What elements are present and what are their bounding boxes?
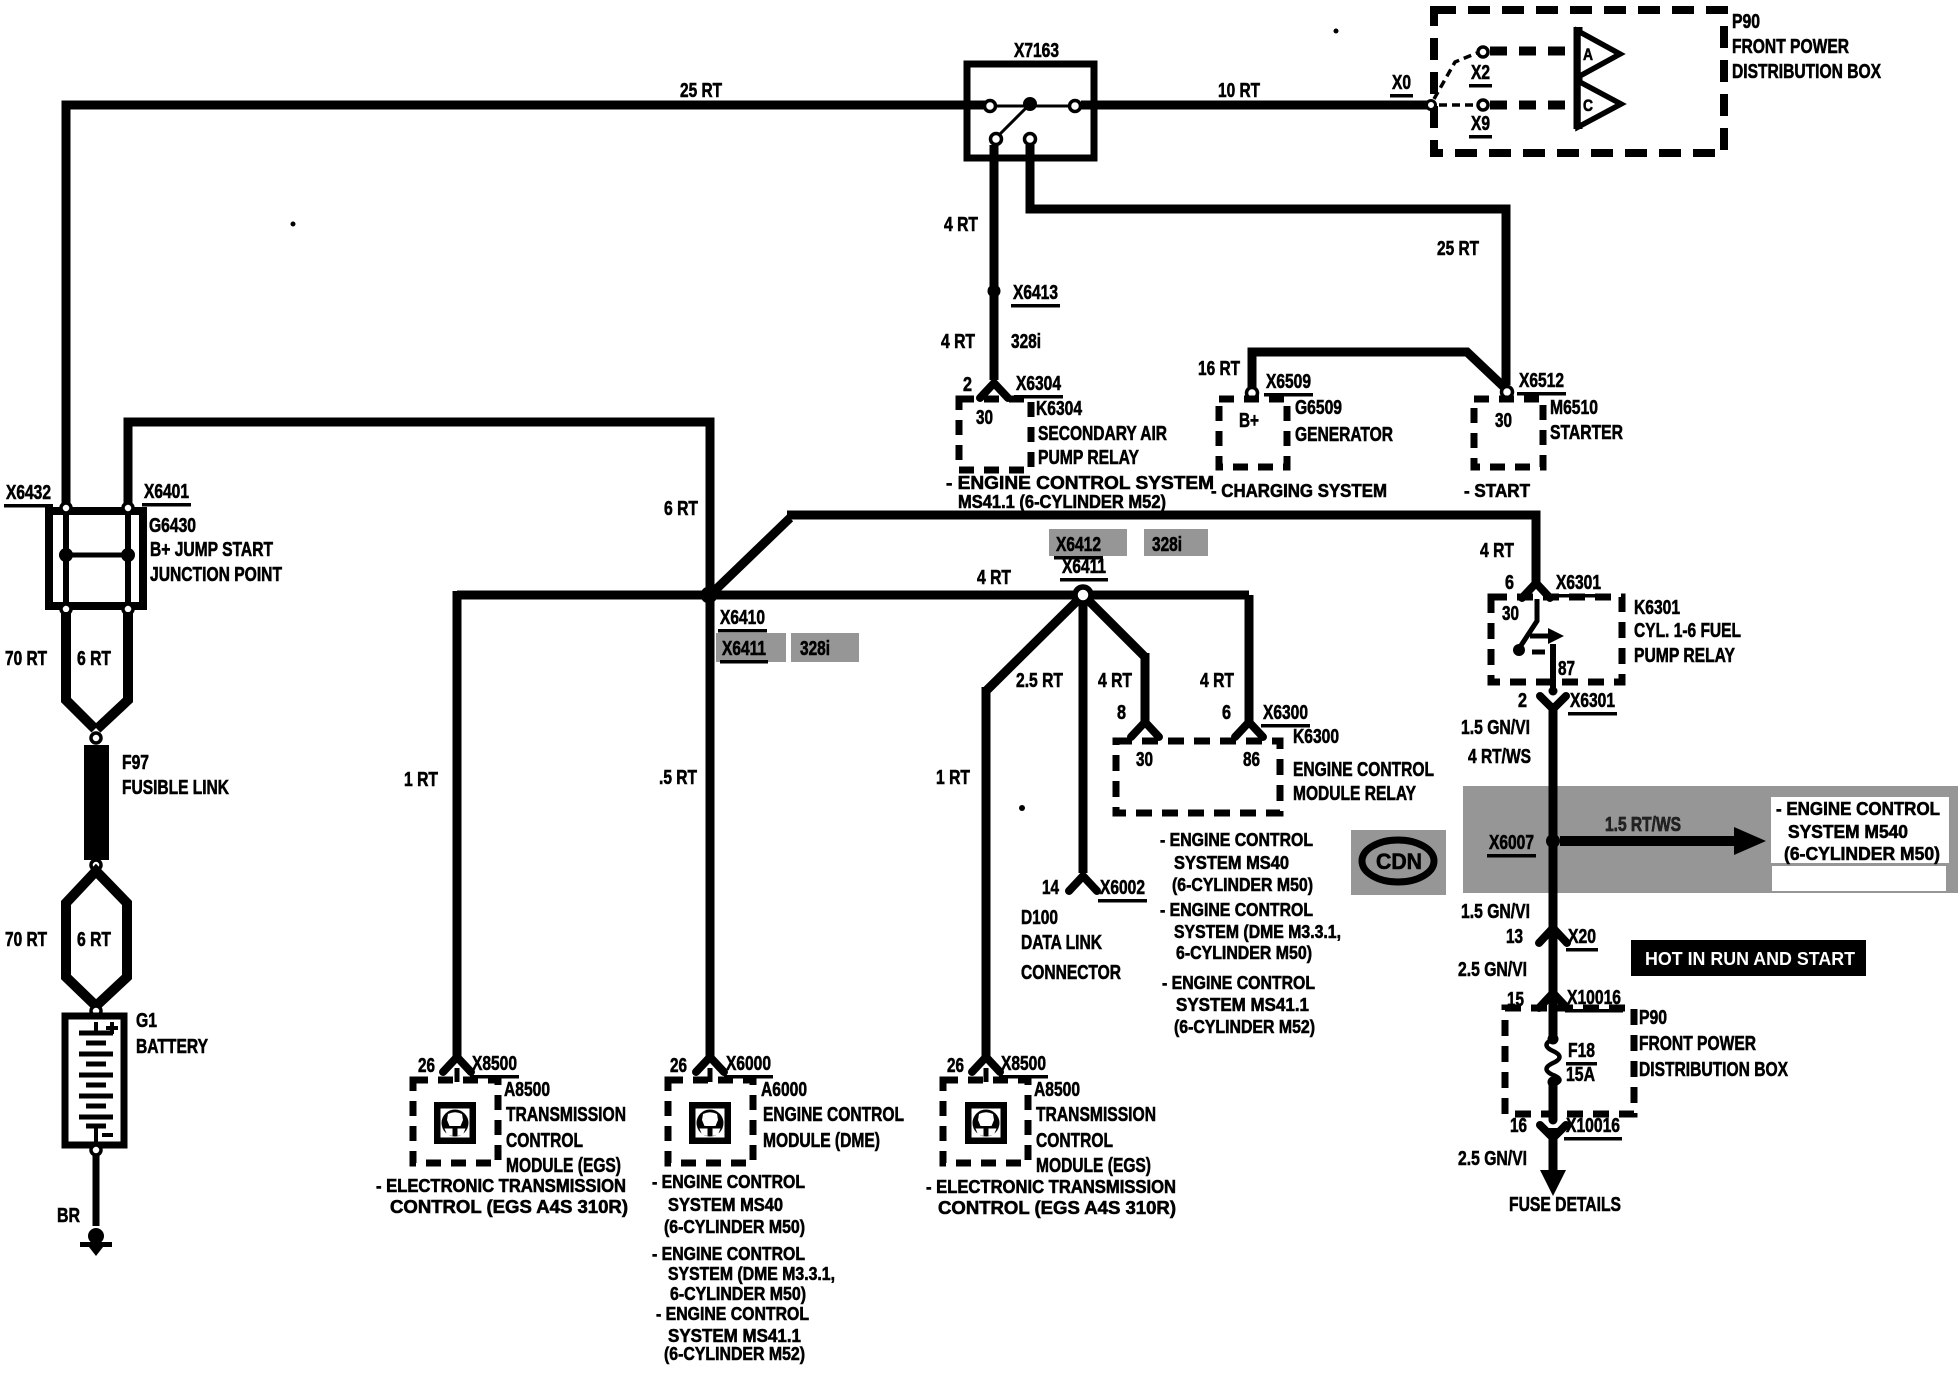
svg-text:(6-CYLINDER M52): (6-CYLINDER M52) (1174, 1017, 1315, 1037)
svg-text:1 RT: 1 RT (404, 769, 438, 791)
svg-text:- ENGINE CONTROL: - ENGINE CONTROL (1776, 799, 1940, 819)
svg-text:- ENGINE CONTROL: - ENGINE CONTROL (652, 1172, 805, 1192)
svg-text:FUSIBLE LINK: FUSIBLE LINK (122, 777, 229, 799)
svg-text:- ENGINE CONTROL: - ENGINE CONTROL (1160, 900, 1313, 920)
svg-text:(6-CYLINDER M50): (6-CYLINDER M50) (1172, 875, 1313, 895)
svg-text:ENGINE CONTROL: ENGINE CONTROL (763, 1104, 904, 1126)
svg-text:16: 16 (1510, 1115, 1527, 1137)
svg-text:X6412: X6412 (1056, 534, 1101, 556)
svg-text:X8500: X8500 (1001, 1053, 1046, 1075)
svg-text:DISTRIBUTION BOX: DISTRIBUTION BOX (1732, 61, 1882, 83)
svg-text:G1: G1 (136, 1010, 157, 1032)
svg-text:SECONDARY AIR: SECONDARY AIR (1038, 423, 1167, 445)
svg-text:2: 2 (1518, 690, 1527, 712)
svg-text:- ENGINE CONTROL: - ENGINE CONTROL (652, 1244, 805, 1264)
svg-text:HOT IN RUN AND START: HOT IN RUN AND START (1645, 949, 1855, 969)
svg-text:X6432: X6432 (6, 482, 51, 504)
svg-text:CONTROL (EGS A4S 310R): CONTROL (EGS A4S 310R) (938, 1198, 1176, 1218)
svg-text:F18: F18 (1568, 1040, 1595, 1062)
svg-text:X0: X0 (1392, 72, 1411, 94)
svg-text:.5 RT: .5 RT (659, 767, 697, 789)
svg-text:A: A (1583, 45, 1593, 64)
svg-text:DISTRIBUTION BOX: DISTRIBUTION BOX (1639, 1059, 1789, 1081)
svg-text:F97: F97 (122, 752, 149, 774)
svg-text:STARTER: STARTER (1550, 422, 1623, 444)
svg-text:TRANSMISSION: TRANSMISSION (1036, 1104, 1156, 1126)
svg-text:SYSTEM M540: SYSTEM M540 (1788, 822, 1908, 842)
svg-text:- ENGINE CONTROL: - ENGINE CONTROL (1160, 830, 1313, 850)
svg-text:BATTERY: BATTERY (136, 1036, 209, 1058)
svg-text:X6410: X6410 (720, 607, 765, 629)
svg-text:X6304: X6304 (1016, 373, 1062, 395)
svg-text:- ENGINE CONTROL: - ENGINE CONTROL (1162, 973, 1315, 993)
svg-text:26: 26 (670, 1055, 687, 1077)
svg-text:M6510: M6510 (1550, 397, 1598, 419)
svg-text:X6002: X6002 (1100, 877, 1145, 899)
svg-text:SYSTEM MS40: SYSTEM MS40 (668, 1195, 783, 1215)
svg-text:25 RT: 25 RT (680, 80, 722, 102)
svg-text:4 RT: 4 RT (1200, 670, 1234, 692)
svg-text:4 RT: 4 RT (1480, 540, 1514, 562)
svg-text:SYSTEM (DME M3.3.1,: SYSTEM (DME M3.3.1, (1174, 922, 1341, 942)
svg-text:1.5 RT/WS: 1.5 RT/WS (1605, 814, 1681, 836)
svg-text:GENERATOR: GENERATOR (1295, 424, 1393, 446)
svg-text:X6411: X6411 (722, 638, 766, 660)
svg-text:TRANSMISSION: TRANSMISSION (506, 1104, 626, 1126)
svg-text:2.5 GN/VI: 2.5 GN/VI (1458, 1148, 1527, 1170)
svg-text:BR: BR (57, 1205, 80, 1227)
svg-text:MODULE RELAY: MODULE RELAY (1293, 783, 1417, 805)
svg-text:CONTROL (EGS A4S 310R): CONTROL (EGS A4S 310R) (390, 1197, 628, 1217)
svg-text:SYSTEM MS41.1: SYSTEM MS41.1 (1176, 995, 1309, 1015)
svg-text:A6000: A6000 (761, 1079, 807, 1101)
svg-text:2.5 RT: 2.5 RT (1016, 670, 1063, 692)
svg-text:4 RT: 4 RT (941, 331, 975, 353)
svg-text:14: 14 (1042, 877, 1060, 899)
svg-text:16 RT: 16 RT (1198, 358, 1240, 380)
svg-text:X9: X9 (1471, 113, 1490, 135)
svg-text:SYSTEM MS40: SYSTEM MS40 (1174, 853, 1289, 873)
svg-text:X2: X2 (1471, 62, 1490, 84)
svg-text:15A: 15A (1566, 1064, 1595, 1086)
svg-text:X6512: X6512 (1519, 370, 1564, 392)
svg-text:X6411: X6411 (1062, 556, 1106, 578)
svg-text:K6301: K6301 (1634, 597, 1680, 619)
svg-text:X6509: X6509 (1266, 371, 1311, 393)
svg-text:1 RT: 1 RT (936, 767, 970, 789)
svg-text:X6000: X6000 (726, 1053, 771, 1075)
svg-text:6 RT: 6 RT (77, 648, 111, 670)
svg-text:15: 15 (1507, 989, 1524, 1011)
svg-text:PUMP RELAY: PUMP RELAY (1038, 447, 1140, 469)
svg-text:FRONT POWER: FRONT POWER (1639, 1033, 1756, 1055)
svg-text:PUMP RELAY: PUMP RELAY (1634, 645, 1736, 667)
svg-text:70 RT: 70 RT (5, 929, 47, 951)
svg-text:25 RT: 25 RT (1437, 238, 1479, 260)
svg-text:1.5 GN/VI: 1.5 GN/VI (1461, 901, 1530, 923)
svg-text:328i: 328i (1011, 331, 1041, 353)
svg-text:K6300: K6300 (1293, 726, 1339, 748)
svg-text:CONTROL: CONTROL (506, 1130, 583, 1152)
svg-text:G6509: G6509 (1295, 397, 1342, 419)
svg-text:X6007: X6007 (1489, 832, 1534, 854)
svg-text:X10016: X10016 (1567, 987, 1621, 1009)
svg-text:6: 6 (1222, 702, 1231, 724)
svg-text:MODULE (EGS): MODULE (EGS) (506, 1155, 621, 1177)
svg-text:30: 30 (1502, 603, 1519, 625)
svg-text:A8500: A8500 (1034, 1079, 1080, 1101)
svg-text:X20: X20 (1568, 926, 1596, 948)
svg-text:328i: 328i (1152, 534, 1182, 556)
svg-text:1.5 GN/VI: 1.5 GN/VI (1461, 717, 1530, 739)
svg-text:70 RT: 70 RT (5, 648, 47, 670)
svg-text:X6413: X6413 (1013, 282, 1058, 304)
svg-text:8: 8 (1117, 702, 1126, 724)
svg-text:4 RT/WS: 4 RT/WS (1468, 746, 1531, 768)
svg-text:X6300: X6300 (1263, 702, 1308, 724)
svg-text:26: 26 (947, 1055, 964, 1077)
svg-text:CONNECTOR: CONNECTOR (1021, 962, 1121, 984)
svg-text:X10016: X10016 (1566, 1115, 1620, 1137)
svg-text:- ELECTRONIC TRANSMISSION: - ELECTRONIC TRANSMISSION (926, 1177, 1176, 1197)
svg-text:- CHARGING SYSTEM: - CHARGING SYSTEM (1211, 481, 1387, 501)
svg-text:- ENGINE CONTROL SYSTEM: - ENGINE CONTROL SYSTEM (946, 473, 1214, 493)
svg-text:13: 13 (1506, 926, 1523, 948)
svg-text:(6-CYLINDER M50): (6-CYLINDER M50) (1784, 844, 1940, 864)
svg-text:30: 30 (1495, 410, 1512, 432)
svg-text:- START: - START (1464, 481, 1530, 501)
svg-text:C: C (1583, 96, 1593, 115)
svg-text:P90: P90 (1732, 11, 1760, 33)
svg-text:- ENGINE CONTROL: - ENGINE CONTROL (656, 1304, 809, 1324)
svg-text:K6304: K6304 (1036, 398, 1083, 420)
svg-text:2: 2 (963, 374, 972, 396)
svg-text:JUNCTION POINT: JUNCTION POINT (150, 564, 282, 586)
svg-text:CYL. 1-6 FUEL: CYL. 1-6 FUEL (1634, 620, 1741, 642)
svg-text:X6301: X6301 (1556, 572, 1601, 594)
svg-text:4 RT: 4 RT (1098, 670, 1132, 692)
svg-text:FRONT POWER: FRONT POWER (1732, 36, 1849, 58)
svg-text:- ELECTRONIC TRANSMISSION: - ELECTRONIC TRANSMISSION (376, 1176, 626, 1196)
svg-text:(6-CYLINDER M52): (6-CYLINDER M52) (664, 1344, 805, 1364)
svg-text:DATA LINK: DATA LINK (1021, 932, 1102, 954)
svg-text:30: 30 (1136, 749, 1153, 771)
svg-text:4 RT: 4 RT (944, 214, 978, 236)
svg-text:X6301: X6301 (1570, 690, 1615, 712)
svg-text:SYSTEM MS41.1: SYSTEM MS41.1 (668, 1326, 801, 1346)
svg-text:6 RT: 6 RT (664, 498, 698, 520)
svg-text:(6-CYLINDER M50): (6-CYLINDER M50) (664, 1217, 805, 1237)
svg-text:6-CYLINDER M50): 6-CYLINDER M50) (670, 1284, 806, 1304)
svg-text:10 RT: 10 RT (1218, 80, 1260, 102)
svg-text:86: 86 (1243, 749, 1260, 771)
svg-text:6-CYLINDER M50): 6-CYLINDER M50) (1176, 943, 1312, 963)
svg-text:26: 26 (418, 1055, 435, 1077)
svg-text:87: 87 (1558, 658, 1575, 680)
svg-text:SYSTEM (DME M3.3.1,: SYSTEM (DME M3.3.1, (668, 1264, 835, 1284)
svg-text:MODULE (DME): MODULE (DME) (763, 1130, 880, 1152)
svg-text:D100: D100 (1021, 907, 1058, 929)
svg-text:B+: B+ (1239, 410, 1259, 432)
svg-text:B+ JUMP START: B+ JUMP START (150, 539, 273, 561)
svg-text:A8500: A8500 (504, 1079, 550, 1101)
svg-text:6: 6 (1505, 572, 1514, 594)
svg-text:X7163: X7163 (1014, 40, 1059, 62)
svg-text:P90: P90 (1639, 1007, 1667, 1029)
svg-text:G6430: G6430 (149, 515, 196, 537)
svg-text:X6401: X6401 (144, 481, 189, 503)
svg-text:X8500: X8500 (472, 1053, 517, 1075)
svg-text:4 RT: 4 RT (977, 567, 1011, 589)
svg-text:328i: 328i (800, 638, 830, 660)
svg-text:MS41.1 (6-CYLINDER M52): MS41.1 (6-CYLINDER M52) (958, 492, 1166, 512)
svg-text:MODULE (EGS): MODULE (EGS) (1036, 1155, 1151, 1177)
svg-text:FUSE DETAILS: FUSE DETAILS (1509, 1194, 1621, 1216)
svg-text:6 RT: 6 RT (77, 929, 111, 951)
svg-text:2.5 GN/VI: 2.5 GN/VI (1458, 959, 1527, 981)
svg-text:ENGINE CONTROL: ENGINE CONTROL (1293, 759, 1434, 781)
svg-text:CDN: CDN (1376, 849, 1422, 874)
svg-text:30: 30 (976, 407, 993, 429)
svg-text:CONTROL: CONTROL (1036, 1130, 1113, 1152)
